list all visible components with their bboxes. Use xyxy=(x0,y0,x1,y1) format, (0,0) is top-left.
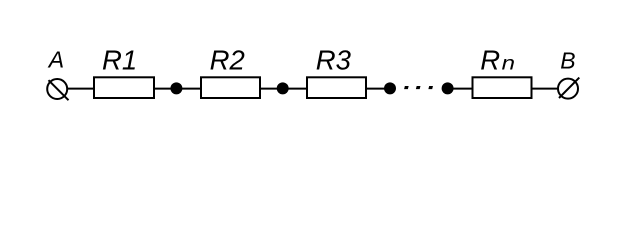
wire node 4 to Rn xyxy=(448,88,473,90)
resistor R2 xyxy=(201,77,260,98)
wire R1 to node 1 xyxy=(155,88,176,90)
wire R2 to node 2 xyxy=(260,88,283,90)
svg-text:R1: R1 xyxy=(102,44,137,75)
ellipsis dots xyxy=(404,86,433,89)
svg-text:n: n xyxy=(502,54,515,75)
node junction 1 xyxy=(170,82,182,94)
node junction 4 xyxy=(442,82,454,94)
wire R3 to node 3 xyxy=(366,88,390,90)
wire Rn to B xyxy=(532,88,560,90)
svg-text:R: R xyxy=(480,45,500,76)
wire A to R1 xyxy=(67,88,94,90)
wire node 2 to R3 xyxy=(283,88,307,90)
resistor R1 xyxy=(94,77,154,98)
svg-text:B: B xyxy=(560,48,575,74)
svg-text:A: A xyxy=(47,47,64,73)
resistor R3 xyxy=(307,77,366,98)
svg-text:R2: R2 xyxy=(210,45,245,76)
node junction 2 xyxy=(277,82,289,94)
terminal A xyxy=(47,79,68,100)
node junction 3 xyxy=(384,82,396,94)
svg-text:R3: R3 xyxy=(316,45,352,76)
wire node 1 to R2 xyxy=(177,88,201,90)
terminal B xyxy=(558,78,579,99)
resistor Rn xyxy=(473,77,532,98)
